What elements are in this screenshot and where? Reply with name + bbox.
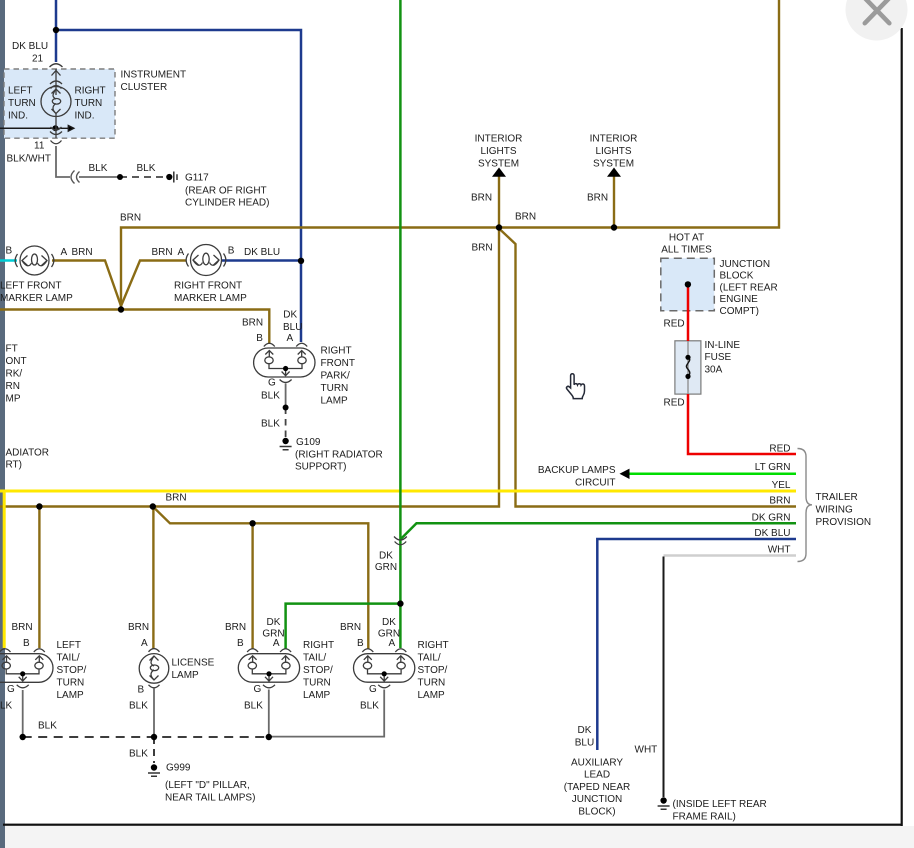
svg-text:(RIGHT RADIATOR: (RIGHT RADIATOR bbox=[295, 449, 383, 460]
svg-text:RIGHT: RIGHT bbox=[75, 86, 106, 97]
wire BLK dashed to G109 bbox=[285, 408, 287, 438]
svg-text:DK BLU: DK BLU bbox=[12, 41, 48, 52]
wire BRN left marker lamp lead bbox=[52, 261, 121, 307]
wire BRN feed down-left to tail lamps bbox=[0, 228, 499, 507]
svg-text:LEFT: LEFT bbox=[8, 86, 32, 97]
svg-text:LEFT FRONT: LEFT FRONT bbox=[0, 281, 61, 292]
svg-text:B: B bbox=[256, 333, 263, 344]
wire DK BLU top vertical into cluster bbox=[55, 0, 58, 62]
wire RED junction block to fuse bbox=[687, 284, 690, 341]
node junction block dot bbox=[685, 281, 691, 287]
wire BLK license lamp ground lead bbox=[153, 689, 155, 738]
svg-text:DK: DK bbox=[382, 617, 396, 628]
svg-text:BRN: BRN bbox=[72, 247, 93, 258]
svg-text:B: B bbox=[228, 246, 235, 257]
svg-text:SYSTEM: SYSTEM bbox=[478, 158, 519, 169]
svg-text:G999: G999 bbox=[166, 763, 191, 774]
svg-text:IND.: IND. bbox=[75, 110, 95, 121]
svg-text:ADIATOR: ADIATOR bbox=[6, 447, 50, 458]
svg-text:LEAD: LEAD bbox=[584, 770, 610, 781]
svg-text:BLK: BLK bbox=[89, 163, 108, 174]
svg-text:LK: LK bbox=[0, 701, 13, 712]
svg-text:FUSE: FUSE bbox=[705, 352, 732, 363]
svg-text:INSTRUMENT: INSTRUMENT bbox=[121, 70, 187, 81]
svg-text:BRN: BRN bbox=[769, 496, 790, 507]
svg-text:BLOCK): BLOCK) bbox=[578, 807, 615, 818]
svg-text:B: B bbox=[237, 638, 244, 649]
svg-text:JUNCTION: JUNCTION bbox=[572, 794, 623, 805]
wire BLK cluster feed from left bbox=[0, 127, 55, 129]
svg-text:WIRING: WIRING bbox=[816, 505, 853, 516]
node BLK ground bus junction 3 bbox=[266, 734, 272, 740]
wire BRN interior lights stub 2 bbox=[613, 175, 615, 228]
svg-text:RED: RED bbox=[769, 444, 790, 455]
svg-text:RIGHT: RIGHT bbox=[321, 346, 352, 357]
svg-text:SYSTEM: SYSTEM bbox=[593, 158, 634, 169]
svg-text:BRN: BRN bbox=[152, 247, 173, 258]
svg-text:B: B bbox=[6, 246, 13, 257]
svg-text:IND.: IND. bbox=[8, 110, 28, 121]
svg-text:STOP/: STOP/ bbox=[303, 665, 333, 676]
svg-text:(INSIDE LEFT REAR: (INSIDE LEFT REAR bbox=[673, 799, 767, 810]
lamp right tail/stop/turn 2 bbox=[354, 649, 415, 688]
svg-text:BRN: BRN bbox=[225, 622, 246, 633]
node BRN tail feed junction 2 bbox=[150, 503, 156, 509]
svg-text:B: B bbox=[357, 638, 364, 649]
node BLK ground bus junction 2 bbox=[151, 734, 157, 740]
svg-text:BLU: BLU bbox=[575, 738, 594, 749]
wire YEL bbox=[0, 491, 796, 648]
svg-text:ENGINE: ENGINE bbox=[720, 294, 759, 305]
arrow backup lamps bbox=[620, 469, 630, 479]
lamp right front marker bbox=[186, 245, 226, 276]
svg-text:BRN: BRN bbox=[472, 243, 493, 254]
svg-text:B: B bbox=[138, 684, 145, 695]
svg-text:BRN: BRN bbox=[166, 493, 187, 504]
svg-text:INTERIOR: INTERIOR bbox=[475, 134, 523, 145]
svg-text:LICENSE: LICENSE bbox=[172, 657, 215, 668]
svg-text:RIGHT: RIGHT bbox=[303, 640, 334, 651]
svg-text:BRN: BRN bbox=[515, 212, 536, 223]
connector arcs cluster BLK lead bbox=[71, 171, 80, 184]
svg-text:PROVISION: PROVISION bbox=[816, 517, 872, 528]
in-line fuse box bbox=[675, 341, 701, 394]
svg-text:BLK: BLK bbox=[129, 749, 148, 760]
arrow cluster feed bbox=[55, 126, 73, 132]
svg-text:CLUSTER: CLUSTER bbox=[121, 82, 168, 93]
svg-text:YEL: YEL bbox=[772, 480, 791, 491]
wire BRN drop to left tail lamp bbox=[38, 507, 40, 649]
svg-text:A: A bbox=[141, 638, 148, 649]
wire BLK right tail lamp 2 ground lead bbox=[270, 690, 384, 737]
svg-text:G109: G109 bbox=[296, 437, 321, 448]
node BLK G117 junction bbox=[117, 174, 123, 180]
node BLK G109 junction bbox=[283, 405, 289, 411]
svg-text:BLK: BLK bbox=[261, 391, 280, 402]
svg-text:30A: 30A bbox=[705, 364, 723, 375]
svg-text:G: G bbox=[254, 684, 262, 695]
node BRN tail feed junction 1 bbox=[36, 503, 42, 509]
svg-text:RT): RT) bbox=[6, 460, 22, 471]
svg-text:BLK: BLK bbox=[129, 701, 148, 712]
diagram border bottom bbox=[3, 824, 902, 826]
svg-text:LAMP: LAMP bbox=[57, 690, 85, 701]
svg-text:STOP/: STOP/ bbox=[57, 665, 87, 676]
svg-text:BLU: BLU bbox=[283, 322, 302, 333]
svg-text:DK GRN: DK GRN bbox=[752, 512, 791, 523]
svg-text:RED: RED bbox=[664, 397, 685, 408]
wire LT BLU stub left marker bbox=[0, 259, 17, 262]
node BRN marker lamps junction bbox=[118, 306, 124, 312]
svg-text:RIGHT: RIGHT bbox=[418, 640, 449, 651]
node DK BLU marker junction bbox=[298, 258, 304, 264]
svg-text:A: A bbox=[287, 333, 294, 344]
wire DK GRN branch to right tail lamp 1 bbox=[286, 604, 401, 649]
diagram border right bbox=[901, 28, 903, 826]
svg-text:LAMP: LAMP bbox=[418, 690, 446, 701]
svg-text:BRN: BRN bbox=[340, 622, 361, 633]
svg-text:MP: MP bbox=[6, 394, 21, 405]
svg-text:CYLINDER HEAD): CYLINDER HEAD) bbox=[185, 198, 269, 209]
node BRN interior lights junction 2 bbox=[611, 224, 617, 230]
svg-text:RED: RED bbox=[664, 318, 685, 329]
node BRN right tail junction bbox=[249, 520, 255, 526]
svg-text:TURN: TURN bbox=[321, 383, 349, 394]
wire LT GRN backup lamps bbox=[629, 473, 796, 476]
svg-text:TAIL/: TAIL/ bbox=[303, 652, 326, 663]
svg-text:TURN: TURN bbox=[75, 98, 103, 109]
brace trailer wiring provision bbox=[798, 449, 813, 562]
svg-text:A: A bbox=[178, 247, 185, 258]
wire DK GRN vertical bbox=[399, 0, 402, 648]
svg-text:BRN: BRN bbox=[471, 193, 492, 204]
svg-text:BLK/WHT: BLK/WHT bbox=[7, 154, 51, 165]
wire BLK cluster to G117 bbox=[56, 146, 120, 177]
lamp right tail/stop/turn 1 bbox=[238, 649, 299, 688]
svg-text:SUPPORT): SUPPORT) bbox=[295, 462, 347, 473]
svg-text:BRN: BRN bbox=[12, 622, 33, 633]
svg-text:JUNCTION: JUNCTION bbox=[720, 259, 771, 270]
wire WHT trailer horizontal bbox=[664, 554, 797, 557]
svg-text:TAIL/: TAIL/ bbox=[418, 652, 441, 663]
svg-text:LAMP: LAMP bbox=[303, 690, 331, 701]
svg-text:FRONT: FRONT bbox=[321, 358, 355, 369]
svg-text:G: G bbox=[268, 378, 276, 389]
wire BRN diagonal to trailer bbox=[499, 229, 796, 507]
svg-text:FT: FT bbox=[6, 344, 18, 355]
svg-text:A: A bbox=[273, 638, 280, 649]
svg-text:LIGHTS: LIGHTS bbox=[595, 146, 631, 157]
bottom status bar bbox=[0, 826, 914, 848]
svg-text:LT GRN: LT GRN bbox=[755, 462, 791, 473]
svg-text:A: A bbox=[389, 638, 396, 649]
wire BRN drop to license lamp bbox=[152, 507, 154, 650]
svg-text:BRN: BRN bbox=[242, 318, 263, 329]
svg-text:FRAME RAIL): FRAME RAIL) bbox=[673, 811, 736, 822]
node DK BLU top junction bbox=[53, 27, 59, 33]
svg-text:A: A bbox=[61, 247, 68, 258]
instrument cluster box bbox=[4, 69, 115, 138]
connector arcs on DK GRN vertical bbox=[394, 537, 407, 545]
svg-text:B: B bbox=[23, 638, 30, 649]
wire BRN main horizontal bbox=[121, 0, 779, 308]
svg-text:DK: DK bbox=[283, 310, 297, 321]
svg-text:DK: DK bbox=[578, 725, 592, 736]
svg-text:TAIL/: TAIL/ bbox=[57, 652, 80, 663]
svg-text:(REAR OF RIGHT: (REAR OF RIGHT bbox=[185, 185, 267, 196]
svg-text:BLK: BLK bbox=[360, 701, 379, 712]
svg-text:INTERIOR: INTERIOR bbox=[590, 134, 638, 145]
svg-text:MARKER LAMP: MARKER LAMP bbox=[0, 293, 73, 304]
svg-text:WHT: WHT bbox=[768, 545, 791, 556]
svg-text:BLK: BLK bbox=[38, 720, 57, 731]
svg-text:MARKER LAMP: MARKER LAMP bbox=[174, 293, 247, 304]
wire BRN park lamp row bbox=[0, 310, 269, 345]
wire DK BLU marker lamp lead bbox=[222, 259, 301, 262]
svg-text:TURN: TURN bbox=[57, 677, 85, 688]
lamp instrument cluster indicator bbox=[41, 64, 71, 144]
ground G109 bbox=[280, 438, 292, 450]
svg-text:LAMP: LAMP bbox=[172, 670, 200, 681]
svg-text:IN-LINE: IN-LINE bbox=[705, 340, 741, 351]
svg-text:TURN: TURN bbox=[303, 677, 331, 688]
svg-text:BLOCK: BLOCK bbox=[720, 271, 754, 282]
wire BLK right tail lamp 1 ground lead bbox=[268, 690, 270, 738]
svg-text:G117: G117 bbox=[185, 173, 209, 184]
svg-text:BRN: BRN bbox=[120, 213, 141, 224]
svg-text:ONT: ONT bbox=[6, 356, 27, 367]
svg-text:STOP/: STOP/ bbox=[418, 665, 448, 676]
svg-text:BLK: BLK bbox=[137, 163, 156, 174]
svg-text:RIGHT FRONT: RIGHT FRONT bbox=[174, 281, 242, 292]
svg-text:(LEFT "D" PILLAR,: (LEFT "D" PILLAR, bbox=[165, 780, 250, 791]
svg-text:WHT: WHT bbox=[635, 745, 658, 756]
svg-text:LIGHTS: LIGHTS bbox=[480, 146, 516, 157]
wire RED fuse to trailer bbox=[688, 394, 796, 454]
svg-text:LEFT: LEFT bbox=[57, 640, 81, 651]
svg-text:G: G bbox=[7, 684, 15, 695]
lamp left front marker bbox=[15, 246, 54, 275]
arrow interior lights 1 bbox=[492, 168, 506, 177]
svg-text:(LEFT REAR: (LEFT REAR bbox=[720, 282, 778, 293]
wire BLK left tail lamp ground lead bbox=[22, 690, 24, 737]
wire BLK park lamp ground lead bbox=[285, 384, 287, 408]
svg-text:G: G bbox=[369, 684, 377, 695]
svg-text:PARK/: PARK/ bbox=[321, 371, 350, 382]
mouse cursor bbox=[566, 374, 584, 399]
wire BRN branch to right tail lamps bbox=[153, 507, 368, 649]
wire BLK dashed drop to G999 bbox=[153, 737, 155, 763]
svg-text:AUXILIARY: AUXILIARY bbox=[571, 757, 623, 768]
wire DK GRN trailer bbox=[400, 523, 796, 539]
svg-text:LAMP: LAMP bbox=[321, 396, 349, 407]
node DK GRN tail junction bbox=[397, 600, 403, 606]
svg-text:ALL TIMES: ALL TIMES bbox=[661, 245, 712, 256]
svg-text:DK: DK bbox=[379, 551, 393, 562]
ground inside left rear frame rail bbox=[658, 797, 670, 809]
svg-text:TURN: TURN bbox=[418, 677, 446, 688]
node cluster internal junction bbox=[52, 125, 58, 131]
svg-text:DK BLU: DK BLU bbox=[244, 247, 280, 258]
svg-text:11: 11 bbox=[34, 140, 45, 151]
node BRN interior lights junction 1 bbox=[496, 224, 502, 230]
svg-text:BACKUP LAMPS: BACKUP LAMPS bbox=[538, 465, 616, 476]
svg-text:RN: RN bbox=[6, 381, 20, 392]
lamp license bbox=[139, 649, 169, 688]
wire BLK dashed to G117 bbox=[120, 176, 166, 178]
svg-text:(TAPED NEAR: (TAPED NEAR bbox=[564, 782, 631, 793]
wire WHT vertical to ground bbox=[663, 557, 665, 798]
svg-text:BRN: BRN bbox=[128, 622, 149, 633]
svg-text:NEAR TAIL LAMPS): NEAR TAIL LAMPS) bbox=[165, 792, 255, 803]
wire BRN right marker lamp lead bbox=[121, 261, 186, 307]
svg-text:BRN: BRN bbox=[587, 193, 608, 204]
ground G999 bbox=[148, 764, 160, 776]
junction block box bbox=[661, 258, 715, 311]
wire DK BLU trailer stub bbox=[597, 539, 796, 750]
wire DK BLU top horizontal bbox=[56, 30, 301, 342]
svg-text:BLK: BLK bbox=[261, 419, 280, 430]
svg-text:21: 21 bbox=[32, 54, 44, 65]
svg-text:GRN: GRN bbox=[375, 562, 397, 573]
svg-text:DK: DK bbox=[267, 617, 281, 628]
svg-text:HOT AT: HOT AT bbox=[669, 232, 704, 243]
lamp left tail/stop/turn bbox=[0, 649, 53, 688]
svg-text:COMPT): COMPT) bbox=[720, 306, 759, 317]
svg-text:TURN: TURN bbox=[8, 98, 36, 109]
svg-text:DK BLU: DK BLU bbox=[754, 528, 790, 539]
lamp right front park/turn bbox=[254, 343, 315, 382]
left panel strip bbox=[0, 0, 5, 848]
svg-text:BLK: BLK bbox=[244, 701, 263, 712]
svg-text:RK/: RK/ bbox=[6, 369, 23, 380]
close button bbox=[846, 0, 908, 41]
ground G117 bbox=[166, 172, 177, 183]
node BLK ground bus junction 1 bbox=[20, 734, 26, 740]
wire BLK dashed ground bus bbox=[23, 736, 269, 738]
arrow interior lights 2 bbox=[607, 168, 621, 177]
svg-text:CIRCUIT: CIRCUIT bbox=[575, 477, 616, 488]
svg-text:TRAILER: TRAILER bbox=[816, 492, 858, 503]
wire BRN interior lights stub 1 bbox=[498, 175, 500, 228]
